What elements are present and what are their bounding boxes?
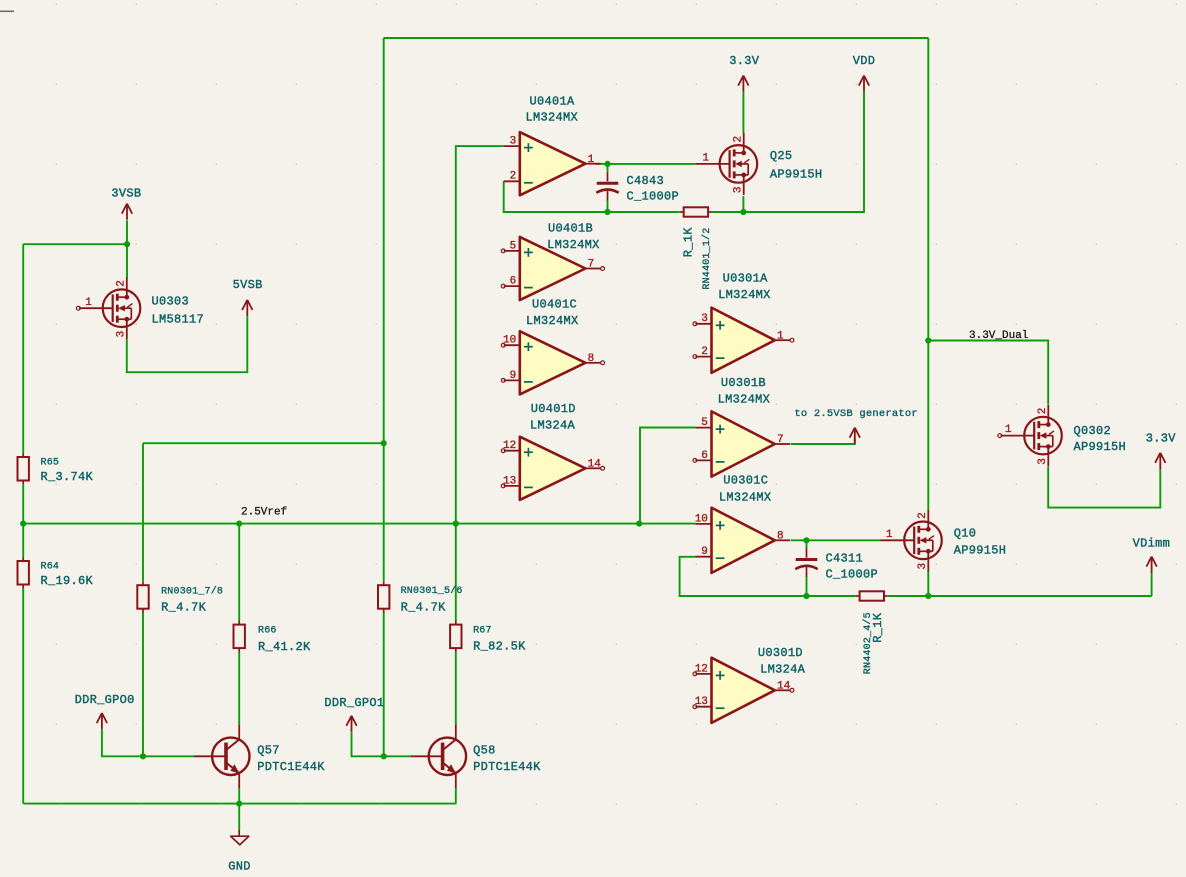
svg-text:PDTC1E44K: PDTC1E44K — [473, 760, 541, 774]
transistor Q25 (P-MOSFET) — [696, 133, 757, 195]
svg-text:5VSB: 5VSB — [233, 278, 263, 292]
svg-text:Q57: Q57 — [257, 743, 280, 757]
power VDD arrow — [859, 76, 869, 92]
wire Q25 source down — [742, 196, 744, 212]
svg-text:9: 9 — [510, 370, 517, 382]
op-amp U0401C — [503, 331, 601, 394]
junction — [124, 241, 130, 247]
svg-text:AP9915H: AP9915H — [1074, 440, 1127, 454]
wire U0401A pin3 to 2.5Vref — [456, 146, 504, 523]
svg-text:U0401C: U0401C — [532, 298, 577, 312]
wire x143 to RN0301_7/8 — [142, 443, 144, 581]
svg-text:C4311: C4311 — [826, 551, 864, 565]
capacitor C4843 — [596, 172, 679, 204]
svg-text:LM324MX: LM324MX — [718, 392, 771, 406]
junction — [140, 753, 146, 759]
wire 3.3V_Dual to Q0302 drain — [928, 341, 1048, 405]
svg-text:6: 6 — [510, 276, 517, 288]
wire loop left upper — [383, 38, 385, 443]
resistor R65 — [18, 453, 94, 484]
svg-text:LM324MX: LM324MX — [547, 238, 600, 252]
wire U0301B pin5 to 2.5Vref — [640, 428, 695, 524]
wire right loop to Q10 drain — [927, 38, 929, 509]
junction — [453, 521, 459, 527]
wire R65-R64 — [22, 484, 24, 557]
svg-text:1: 1 — [702, 153, 709, 165]
svg-text:VDD: VDD — [853, 54, 876, 68]
svg-text:DDR_GPO1: DDR_GPO1 — [324, 696, 384, 710]
wire Q10 source down — [927, 571, 929, 596]
wire C4311 bottom — [806, 577, 808, 596]
svg-text:8: 8 — [777, 531, 784, 543]
wire 2.5Vref to R66 branch — [238, 524, 240, 621]
svg-text:Q58: Q58 — [473, 743, 496, 757]
resistor R67 — [450, 621, 526, 654]
wire C4843 top — [607, 164, 609, 172]
svg-text:10: 10 — [695, 513, 708, 525]
svg-text:U0301B: U0301B — [721, 376, 766, 390]
junction — [604, 209, 610, 215]
wire 3.3V to Q25 drain — [742, 92, 744, 134]
wire VDimm riser — [1151, 572, 1153, 596]
svg-text:VDimm: VDimm — [1133, 537, 1171, 551]
svg-text:2: 2 — [1037, 408, 1049, 415]
transistor Q58 (NPN) — [411, 725, 466, 788]
svg-text:U0401D: U0401D — [531, 402, 576, 416]
ground GND — [238, 829, 240, 836]
svg-text:R_19.6K: R_19.6K — [41, 574, 94, 588]
wire U0301C pin9 feedback — [680, 557, 856, 596]
svg-text:Q25: Q25 — [770, 149, 793, 163]
pin end marker U0301B pin 6 — [693, 459, 697, 463]
op-amp U0301C — [695, 508, 790, 573]
wire top loop — [384, 37, 929, 39]
wire GND stem — [238, 804, 240, 830]
svg-text:R_41.2K: R_41.2K — [258, 640, 311, 654]
svg-text:2: 2 — [510, 171, 517, 183]
wire 2.5Vref bus — [23, 523, 695, 525]
wire U0401A out to Q25 gate — [596, 163, 696, 165]
wire x384 to RN0301_5/6 — [383, 443, 385, 581]
power DDR_GPO0 arrow — [97, 713, 107, 729]
svg-text:Q10: Q10 — [954, 527, 977, 541]
wire Q0302 source to 3.3V — [1048, 467, 1160, 508]
svg-text:LM324A: LM324A — [530, 419, 576, 433]
svg-text:3: 3 — [701, 313, 708, 325]
svg-text:1: 1 — [1005, 424, 1012, 436]
svg-text:2: 2 — [701, 346, 708, 358]
svg-text:R_4.7K: R_4.7K — [401, 600, 447, 614]
op-amp U0401B — [504, 237, 601, 300]
op-amp U0401D — [503, 437, 601, 500]
pin end markers U0401C — [501, 343, 505, 347]
wire horizontal y443 — [143, 442, 384, 444]
svg-text:1: 1 — [85, 297, 92, 309]
svg-text:U0401B: U0401B — [548, 222, 593, 236]
wire left rail upper — [22, 244, 24, 453]
svg-text:RN0301_7/8: RN0301_7/8 — [161, 585, 223, 597]
wire RN0301_5/6 to Q58 base node — [383, 612, 385, 756]
svg-text:C_1000P: C_1000P — [826, 567, 879, 581]
resistor R64 — [18, 557, 94, 588]
svg-text:7: 7 — [588, 259, 595, 271]
svg-text:3.3V: 3.3V — [1146, 431, 1177, 445]
svg-text:1: 1 — [777, 330, 784, 342]
svg-text:14: 14 — [588, 459, 602, 471]
svg-text:7: 7 — [777, 434, 784, 446]
svg-text:5: 5 — [701, 417, 708, 429]
svg-text:LM324A: LM324A — [760, 663, 806, 677]
wire U0303 source to 5VSB — [127, 316, 248, 372]
wire bottom rail — [23, 803, 456, 805]
junction — [604, 161, 610, 167]
svg-text:RN4402_4/5: RN4402_4/5 — [862, 612, 874, 674]
wire U0301B out to 2.5VSB arrow — [791, 439, 855, 444]
power 3.3V arrow right — [1155, 453, 1165, 469]
svg-text:RN4401_1/2: RN4401_1/2 — [701, 228, 713, 290]
junction — [20, 521, 26, 527]
svg-text:Q0302: Q0302 — [1074, 424, 1112, 438]
svg-text:R_82.5K: R_82.5K — [473, 639, 526, 653]
svg-text:2: 2 — [732, 136, 744, 143]
wire C4843 bottom — [607, 200, 609, 212]
svg-text:9: 9 — [701, 546, 708, 558]
wire left rail lower — [22, 588, 24, 803]
wire U0401A pin2 feedback — [504, 181, 680, 212]
op-amp U0301A — [695, 308, 790, 373]
svg-text:R66: R66 — [258, 626, 277, 637]
svg-text:C_1000P: C_1000P — [627, 189, 680, 203]
svg-text:14: 14 — [777, 681, 791, 693]
junction — [925, 337, 931, 343]
svg-text:5: 5 — [510, 240, 517, 252]
svg-text:LM324MX: LM324MX — [719, 490, 772, 504]
pin end markers U0401D — [501, 449, 505, 453]
junction — [803, 593, 809, 599]
wire 3VSB to U0303 drain — [126, 220, 128, 277]
svg-text:LM324MX: LM324MX — [718, 288, 771, 302]
transistor Q10 (P-MOSFET) — [881, 509, 942, 571]
resistor RN0301_5/6 — [378, 581, 463, 614]
svg-text:U0301D: U0301D — [758, 646, 803, 660]
junction — [740, 209, 746, 215]
svg-text:3: 3 — [732, 186, 744, 193]
junction — [236, 801, 242, 807]
svg-text:R_3.74K: R_3.74K — [41, 470, 94, 484]
transistor Q0302 (P-MOSFET) — [1001, 405, 1062, 467]
junction — [925, 593, 931, 599]
svg-text:U0301A: U0301A — [723, 272, 769, 286]
op-amp U0301B — [695, 411, 790, 476]
svg-text:3: 3 — [510, 136, 517, 148]
junction — [636, 521, 642, 527]
wire R_1K to VDD — [712, 92, 864, 212]
wire 3VSB branch left — [23, 243, 127, 245]
svg-text:R64: R64 — [41, 562, 60, 573]
svg-text:LM324MX: LM324MX — [526, 111, 579, 125]
svg-text:R_1K: R_1K — [682, 227, 696, 258]
transistor Q57 (NPN) — [194, 725, 249, 788]
wire R66 to Q57 collector — [238, 652, 240, 725]
svg-text:AP9915H: AP9915H — [954, 543, 1007, 557]
junction — [381, 753, 387, 759]
resistor RN4401_1/2 R_1K — [680, 207, 712, 216]
svg-text:R67: R67 — [473, 625, 492, 636]
svg-text:RN0301_5/6: RN0301_5/6 — [401, 585, 463, 597]
wire 2.5Vref to R67 branch upper — [455, 524, 457, 621]
wire Q58 emitter — [455, 788, 457, 804]
svg-text:3.3V: 3.3V — [729, 54, 760, 68]
svg-text:DDR_GPO0: DDR_GPO0 — [75, 693, 135, 707]
wire DDR_GPO1 to Q58 base — [352, 732, 411, 756]
op-amp U0301D — [695, 658, 791, 723]
op-amp U0401A — [504, 132, 601, 195]
pin end markers U0401B — [501, 249, 505, 253]
pin end markers U0301D — [693, 672, 697, 676]
svg-text:GND: GND — [228, 859, 251, 873]
pin end markers U0301A — [693, 322, 697, 326]
capacitor C4311 — [795, 548, 878, 581]
svg-text:U0401A: U0401A — [529, 95, 575, 109]
svg-text:1: 1 — [588, 154, 595, 166]
wire Q57 emitter — [238, 788, 240, 804]
svg-text:U0301C: U0301C — [723, 474, 768, 488]
resistor RN0301_7/8 — [137, 581, 223, 614]
svg-text:2: 2 — [115, 280, 127, 287]
power 3VSB arrow — [122, 204, 132, 220]
svg-text:to 2.5VSB generator: to 2.5VSB generator — [794, 408, 918, 420]
wire RN0301_7/8 to Q57 base node — [142, 612, 144, 756]
power VDimm arrow — [1146, 557, 1156, 573]
svg-text:2: 2 — [917, 512, 929, 519]
svg-text:R65: R65 — [41, 458, 60, 469]
power 3.3V arrow top — [738, 76, 748, 92]
svg-text:U0303: U0303 — [152, 295, 190, 309]
pin end marker U0303 pin 1 — [76, 306, 80, 310]
junction — [803, 537, 809, 543]
svg-text:3: 3 — [115, 331, 127, 338]
power arrow to 2.5VSB generator — [850, 428, 860, 444]
wire RN4402 to VDimm rail — [888, 595, 1152, 597]
wire C4311 top — [806, 540, 808, 548]
transistor U0303 (P-MOSFET) — [79, 277, 140, 339]
svg-text:PDTC1E44K: PDTC1E44K — [257, 760, 325, 774]
svg-text:C4843: C4843 — [627, 174, 665, 188]
pin end marker Q0302 pin 1 — [998, 434, 1002, 438]
svg-text:3: 3 — [917, 563, 929, 570]
junction — [236, 521, 242, 527]
power 5VSB arrow — [242, 300, 252, 316]
svg-text:3.3V_Dual: 3.3V_Dual — [969, 330, 1028, 342]
svg-text:2.5Vref: 2.5Vref — [241, 506, 287, 518]
resistor R66 — [234, 621, 312, 654]
resistor RN4402_4/5 R_1K — [856, 591, 888, 600]
junction — [381, 440, 387, 446]
svg-text:LM58117: LM58117 — [152, 312, 205, 326]
svg-text:AP9915H: AP9915H — [770, 167, 823, 181]
wire U0301C out to Q10 gate — [791, 539, 881, 541]
svg-text:3: 3 — [1037, 458, 1049, 465]
svg-text:8: 8 — [588, 353, 595, 365]
power DDR_GPO1 arrow — [346, 716, 356, 732]
svg-text:R_4.7K: R_4.7K — [161, 600, 207, 614]
svg-text:3VSB: 3VSB — [111, 187, 141, 201]
svg-text:1: 1 — [886, 529, 893, 541]
svg-text:LM324MX: LM324MX — [526, 314, 579, 328]
wire DDR_GPO0 to Q57 base — [102, 729, 194, 756]
wire R67 to Q58 collector — [455, 652, 457, 725]
svg-text:6: 6 — [701, 450, 708, 462]
